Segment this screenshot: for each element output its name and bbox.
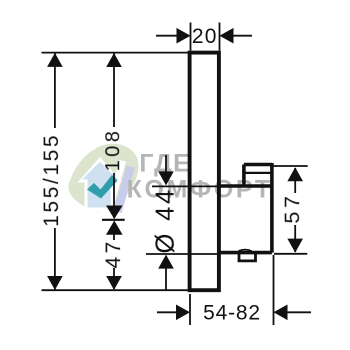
knob lip inner line — [244, 172, 272, 174]
watermark blue arrow — [82, 162, 118, 208]
dim 54-82 ext lines — [189, 294, 191, 325]
knob right edge — [270, 163, 274, 253]
arrow 57 down — [287, 239, 303, 253]
wire top extension line left — [42, 52, 190, 54]
arrow 54-82 right — [176, 305, 190, 321]
arrow 47 up — [106, 221, 123, 235]
knob body bottom — [219, 251, 272, 255]
knob underside bump — [239, 250, 252, 251]
arrow 108 down — [106, 206, 123, 220]
dim D44 bottom ext line — [146, 253, 219, 255]
knob lip left — [242, 165, 246, 187]
dim D44 top ext line — [152, 185, 219, 187]
dim 54-82 tails — [157, 311, 177, 313]
svg-text:47: 47 — [102, 238, 125, 268]
knob body top — [219, 184, 272, 188]
dim 20 ext lines — [190, 23, 192, 51]
dim D44 top stem — [165, 155, 167, 172]
dim 20 tails — [156, 35, 177, 37]
watermark logo leaf — [68, 144, 138, 214]
arrow 57 up — [287, 167, 303, 181]
wire bottom extension line left — [42, 289, 190, 291]
knob lip top — [244, 163, 272, 167]
knob bottom lip — [239, 253, 256, 261]
arrow 155 up — [47, 53, 63, 67]
dim 57 ext lines — [271, 165, 308, 167]
dim 57 stems — [294, 168, 296, 193]
svg-text:57: 57 — [280, 192, 304, 223]
arrow 20 left — [220, 28, 234, 44]
dim 155/155 line — [54, 53, 56, 128]
arrow 20 right — [177, 28, 191, 44]
arrow 54-82 left — [274, 305, 288, 321]
dim 47 line — [113, 223, 115, 240]
arrow 108 up — [106, 53, 122, 67]
arrow 47 down — [106, 276, 122, 290]
svg-text:20: 20 — [192, 25, 218, 48]
watermark white arrow knockout — [78, 157, 123, 211]
svg-text:Ø 44: Ø 44 — [152, 187, 180, 253]
arrow 155 down — [47, 276, 63, 290]
arrow D44 down — [158, 171, 174, 185]
svg-text:54-82: 54-82 — [203, 301, 261, 324]
svg-text:108: 108 — [102, 128, 124, 172]
dim D44 bottom stem — [165, 268, 167, 290]
dim 108 line — [113, 53, 115, 127]
watermark white stripe knockout — [105, 160, 126, 214]
node center tick — [102, 219, 125, 221]
svg-text:155/155: 155/155 — [40, 133, 63, 227]
watermark teal check — [87, 175, 118, 199]
watermark periwinkle stripe — [113, 166, 135, 214]
plate body — [190, 53, 219, 291]
svg-text:КОМФОРТ: КОМФОРТ — [127, 176, 273, 204]
arrow D44 up — [158, 255, 174, 269]
